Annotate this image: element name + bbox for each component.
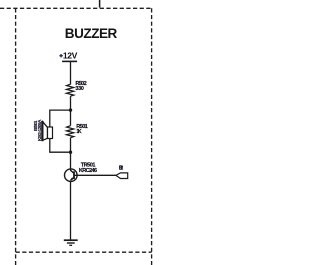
svg-text:BUZZER: BUZZER	[65, 26, 118, 41]
wire emitter to ground	[70, 181, 72, 241]
resistor R502	[67, 84, 74, 96]
buzzer BZ501 speaker symbol	[42, 121, 52, 141]
off-page connector flag	[116, 173, 128, 179]
wire R501 to node B	[70, 138, 72, 153]
transistor base bar	[73, 171, 75, 179]
node B junction dot	[69, 151, 72, 154]
svg-text:12V: 12V	[63, 51, 78, 61]
node A junction dot	[69, 108, 72, 111]
dashed border bottom	[16, 251, 152, 253]
dashed border top	[0, 7, 152, 9]
svg-text:KSG-1206A: KSG-1206A	[37, 119, 43, 141]
power rail bar	[62, 61, 77, 63]
wire node B to transistor collector	[70, 152, 72, 170]
svg-text:KRC246: KRC246	[79, 168, 97, 174]
transistor Q TR501 circle	[65, 169, 78, 182]
wire +12V to R502	[70, 62, 72, 84]
dashed border left	[15, 8, 17, 265]
svg-text:B2: B2	[119, 166, 124, 172]
svg-text:1K: 1K	[76, 129, 81, 135]
wire off-page tick at top	[99, 0, 101, 8]
svg-text:330: 330	[75, 86, 84, 92]
ground	[64, 240, 78, 245]
transistor emitter diagonal with arrow	[71, 177, 74, 180]
transistor collector diagonal	[70, 170, 74, 173]
wire base to off-page flag B2	[75, 174, 116, 176]
power flag plus	[59, 54, 62, 57]
wire buzzer bottom to node B	[50, 139, 71, 153]
wire R502 to node A	[70, 96, 72, 126]
dashed border right	[151, 8, 153, 265]
wire node A to buzzer top	[50, 110, 71, 127]
resistor R501	[67, 126, 74, 138]
